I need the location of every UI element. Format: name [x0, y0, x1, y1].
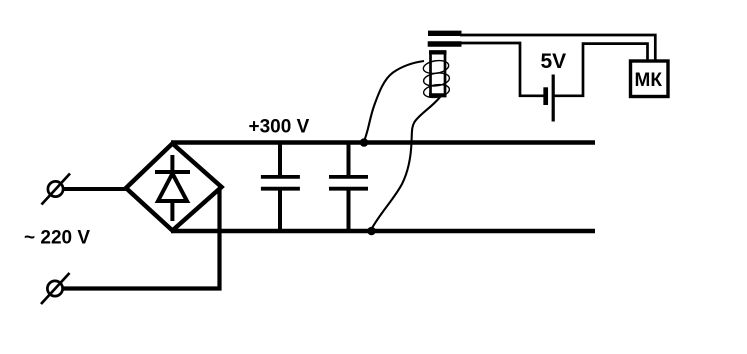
wire bridge right corner down [217, 187, 221, 291]
battery positive plate [552, 75, 555, 122]
node junction bottom [367, 227, 376, 236]
bridge rectifier diamond [126, 144, 222, 231]
wire 0V rail [171, 229, 595, 234]
node junction top [360, 138, 369, 147]
svg-text:~ 220 V: ~ 220 V [24, 228, 90, 249]
relay contact bar bottom [428, 41, 462, 47]
capacitor C2 [329, 142, 368, 231]
wire contact bottom to battery [460, 43, 544, 96]
battery negative plate [543, 87, 548, 105]
box MK microcontroller [631, 61, 669, 97]
diode D1 [155, 155, 190, 221]
wire squiggle from bottom junction to coil [372, 95, 442, 229]
wire battery to MK [553, 44, 648, 96]
terminal input top [42, 174, 71, 205]
svg-text:+300 V: +300 V [249, 117, 310, 138]
relay coil winding loops [422, 59, 450, 99]
capacitor C1 [261, 142, 300, 231]
wire squiggle from top junction to coil [365, 61, 425, 140]
relay coil core [429, 52, 447, 96]
wire +300V rail [171, 140, 595, 145]
wire input bottom [63, 286, 222, 290]
wire contact top to MK [460, 35, 655, 62]
relay contact bar top [428, 31, 462, 36]
svg-text:МК: МК [635, 70, 663, 91]
svg-text:5V: 5V [541, 50, 567, 73]
terminal input bottom [41, 273, 70, 304]
wire input top [63, 187, 128, 191]
